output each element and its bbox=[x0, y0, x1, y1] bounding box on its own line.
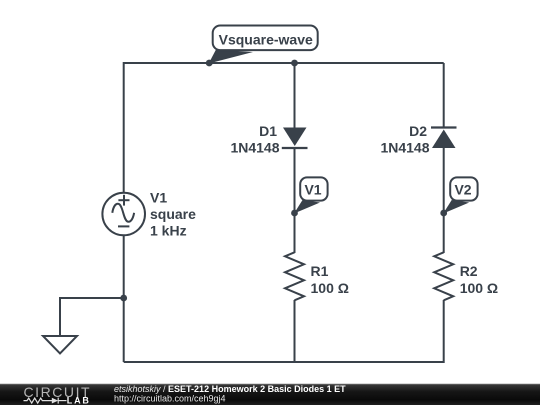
wire middle branch anode lead bbox=[294, 63, 296, 128]
node V2 callout box bbox=[450, 177, 477, 200]
svg-text:1N4148: 1N4148 bbox=[230, 140, 279, 156]
wire right branch below R2 bbox=[443, 300, 445, 363]
wire left branch lower bbox=[123, 236, 125, 363]
resistor R2 bbox=[434, 252, 453, 300]
svg-text:1N4148: 1N4148 bbox=[380, 140, 429, 156]
svg-text:1 kHz: 1 kHz bbox=[150, 223, 187, 239]
node V2 callout pointer bbox=[443, 200, 469, 214]
svg-text:square: square bbox=[150, 206, 196, 222]
wire middle branch below R1 bbox=[294, 300, 296, 363]
diode D1 bbox=[282, 128, 308, 149]
svg-text:D1: D1 bbox=[259, 123, 277, 139]
svg-text:R2: R2 bbox=[460, 263, 478, 279]
CircuitLab logo diode triangle bbox=[52, 398, 58, 404]
wire right branch below D2 bbox=[443, 148, 445, 253]
svg-text:V1: V1 bbox=[150, 190, 167, 206]
wire bottom rail bbox=[124, 361, 444, 363]
svg-text:V1: V1 bbox=[304, 182, 321, 198]
svg-text:100 Ω: 100 Ω bbox=[311, 280, 349, 296]
svg-text:100 Ω: 100 Ω bbox=[460, 280, 498, 296]
svg-text:V2: V2 bbox=[454, 182, 471, 198]
wire right branch upper lead bbox=[443, 63, 445, 128]
ground bbox=[43, 336, 77, 354]
wire left branch upper bbox=[123, 62, 125, 193]
wire ground stub horizontal bbox=[60, 297, 124, 299]
node V2 junction dot bbox=[440, 210, 447, 217]
voltage source V1 bbox=[102, 193, 145, 236]
diode D2 bbox=[431, 128, 457, 149]
wire middle branch below D1 bbox=[294, 148, 296, 253]
node Vsquare-wave callout pointer bbox=[209, 50, 253, 64]
CircuitLab logo resistor-diode squiggle bbox=[24, 398, 67, 404]
wire ground stub vertical bbox=[59, 297, 61, 336]
resistor R1 bbox=[285, 252, 304, 300]
node junction dot at ground tap bbox=[120, 295, 127, 302]
svg-text:http://circuitlab.com/ceh9gj4: http://circuitlab.com/ceh9gj4 bbox=[114, 393, 226, 403]
svg-text:D2: D2 bbox=[409, 123, 427, 139]
svg-text:Vsquare-wave: Vsquare-wave bbox=[219, 31, 313, 47]
node V1 callout pointer bbox=[294, 200, 320, 214]
wire top rail bbox=[124, 62, 444, 64]
node junction dot middle branch top bbox=[291, 60, 298, 67]
node V1 junction dot bbox=[291, 210, 298, 217]
svg-text:R1: R1 bbox=[311, 263, 329, 279]
node Vsquare-wave callout box bbox=[213, 26, 318, 51]
footer bar bbox=[0, 384, 540, 405]
svg-text:LAB: LAB bbox=[67, 395, 91, 405]
node V1 callout box bbox=[300, 177, 327, 200]
node Vsquare-wave junction dot (left) bbox=[206, 60, 213, 67]
